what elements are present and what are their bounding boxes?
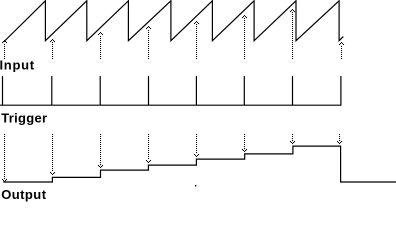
trigger pulse #1 xyxy=(2,76,4,105)
svg-text:Input: Input xyxy=(0,58,35,73)
input sawtooth waveform xyxy=(4,1,344,42)
trigger pulse #2 xyxy=(51,76,53,105)
svg-text:Trigger: Trigger xyxy=(1,110,47,125)
dotted sample arrow (down) #8 onto output step 8 xyxy=(337,134,342,144)
dotted sample arrow (down) #5 onto output step 5 xyxy=(194,134,199,157)
dotted sample arrow (down) #7 onto output step 7 xyxy=(290,134,295,144)
dotted sample arrow (down) #6 onto output step 6 xyxy=(242,134,247,152)
svg-text:Output: Output xyxy=(1,187,47,202)
trigger baseline xyxy=(0,76,341,105)
dotted sample arrow (up) #2 at trigger time t2 xyxy=(50,39,55,59)
trigger pulse #4 xyxy=(148,76,150,105)
dotted sample arrow (up) #8 at trigger time t8 xyxy=(339,42,344,59)
trigger pulse #3 xyxy=(99,76,101,105)
trigger pulse #8 xyxy=(340,76,342,105)
dotted sample arrow (down) #1 onto output step 1 xyxy=(2,134,7,182)
dotted sample arrow (down) #3 onto output step 3 xyxy=(98,134,103,168)
dotted sample arrow (up) #4 at trigger time t4 xyxy=(146,26,151,59)
trigger pulse #7 xyxy=(292,76,294,105)
dotted sample arrow (down) #2 onto output step 2 xyxy=(50,134,55,175)
dotted sample arrow (up) #6 at trigger time t6 xyxy=(242,15,247,59)
trigger pulse #5 xyxy=(195,76,197,105)
dotted sample arrow (down) #4 onto output step 4 xyxy=(146,134,151,163)
output staircase waveform xyxy=(3,146,396,182)
dotted sample arrow (up) #3 at trigger time t3 xyxy=(98,32,103,59)
dotted sample arrow (up) #7 at trigger time t7 xyxy=(290,9,295,59)
dotted sample arrow (up) #1 at trigger time t1 xyxy=(2,40,7,59)
trigger pulse #6 xyxy=(243,76,245,105)
dotted sample arrow (up) #5 at trigger time t5 xyxy=(194,21,199,59)
stray ink dot xyxy=(195,185,196,186)
